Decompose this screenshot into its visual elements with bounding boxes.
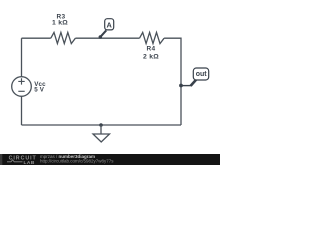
wire bottom <box>22 124 182 126</box>
node A flag <box>99 19 114 39</box>
svg-text:out: out <box>196 71 208 78</box>
node out flag <box>179 68 209 87</box>
svg-text:A: A <box>107 20 113 29</box>
wire left upper <box>21 38 23 76</box>
svg-text:2 kΩ: 2 kΩ <box>143 53 159 60</box>
wire top-left segment <box>22 37 51 39</box>
wire top-right segment <box>164 38 181 125</box>
ground <box>93 123 110 142</box>
wire top-middle segment <box>75 37 139 39</box>
watermark bar <box>0 154 220 166</box>
resistor R3 <box>51 14 76 44</box>
svg-text:5 V: 5 V <box>34 87 45 94</box>
svg-text:LAB: LAB <box>24 160 35 165</box>
svg-text:http://circuitlab.com/c/5982y7: http://circuitlab.com/c/5982y7w8y77s <box>40 158 114 163</box>
wire left lower <box>21 96 23 125</box>
voltage source V1 <box>12 77 46 97</box>
svg-text:1 kΩ: 1 kΩ <box>52 20 68 27</box>
svg-text:R4: R4 <box>147 46 156 53</box>
resistor R4 <box>140 32 165 60</box>
